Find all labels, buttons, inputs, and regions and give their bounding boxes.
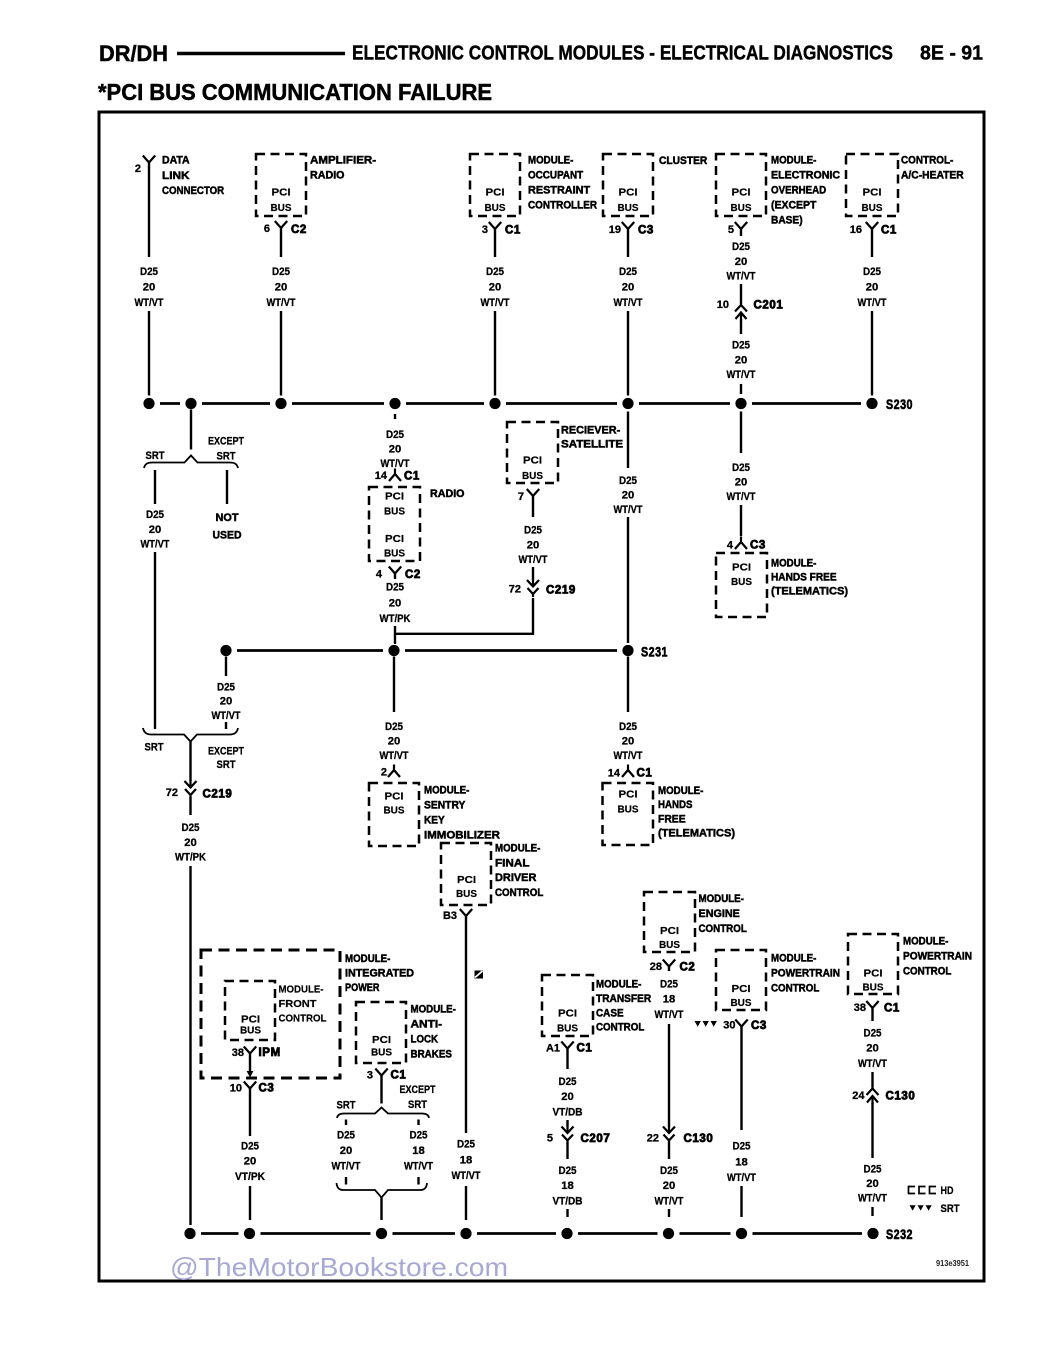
- svg-text:D25: D25: [486, 266, 504, 278]
- svg-text:D25: D25: [559, 1165, 577, 1177]
- svg-text:@TheMotorBookstore.com: @TheMotorBookstore.com: [170, 1252, 508, 1282]
- svg-text:SRT: SRT: [337, 1100, 356, 1112]
- svg-text:WT/VT: WT/VT: [727, 271, 756, 283]
- svg-text:HD: HD: [941, 1185, 954, 1197]
- svg-text:D25: D25: [386, 429, 404, 441]
- svg-text:CONTROL: CONTROL: [495, 887, 544, 899]
- svg-text:D25: D25: [619, 266, 637, 278]
- wire C207 to S232 (D25 18 VT/DB): [566, 1143, 568, 1160]
- brace merge ABS branches: [337, 1183, 428, 1198]
- svg-text:D25: D25: [619, 721, 637, 733]
- svg-text:WT/VT: WT/VT: [519, 554, 548, 566]
- wire Powertrain 2 to C130 (D25 20 WT/VT): [871, 1008, 873, 1021]
- svg-text:BUS: BUS: [384, 548, 405, 560]
- junction on S230 at x=149: [143, 398, 154, 409]
- wire S230 down to Radio C1 (D25 20 WT/VT): [394, 414, 396, 419]
- svg-text:WT/VT: WT/VT: [655, 1009, 684, 1021]
- svg-text:72: 72: [509, 584, 521, 596]
- svg-text:BUS: BUS: [522, 470, 543, 482]
- junction on S231 at x=226: [220, 645, 231, 656]
- svg-text:C1: C1: [391, 1070, 407, 1082]
- svg-text:BUS: BUS: [731, 202, 752, 214]
- svg-text:18: 18: [561, 1180, 574, 1192]
- svg-text:D25: D25: [660, 979, 678, 991]
- svg-text:EXCEPT: EXCEPT: [208, 746, 244, 758]
- svg-text:C1: C1: [884, 1003, 900, 1015]
- svg-text:18: 18: [460, 1154, 473, 1166]
- diagram border frame: [99, 112, 984, 1281]
- wire ABS SRT branch (D25 20 WT/VT): [345, 1120, 347, 1126]
- wire EXCEPT SRT branch to NOT USED: [226, 470, 228, 504]
- svg-text:RADIO: RADIO: [310, 170, 345, 182]
- svg-text:CONTROL: CONTROL: [279, 1013, 328, 1025]
- svg-text:20: 20: [622, 736, 635, 748]
- svg-text:PCI: PCI: [372, 1034, 391, 1046]
- svg-text:WT/VT: WT/VT: [858, 1193, 887, 1205]
- svg-text:RECIEVER-: RECIEVER-: [561, 425, 621, 437]
- svg-text:PCI: PCI: [732, 187, 751, 199]
- svg-text:D25: D25: [272, 266, 290, 278]
- svg-text:MODULE-: MODULE-: [424, 785, 470, 797]
- svg-text:PCI: PCI: [272, 187, 291, 199]
- svg-text:ELECTRONIC CONTROL MODULES - E: ELECTRONIC CONTROL MODULES - ELECTRICAL …: [352, 43, 893, 65]
- svg-text:20: 20: [389, 444, 402, 456]
- svg-text:7: 7: [518, 491, 524, 503]
- svg-text:TRANSFER: TRANSFER: [596, 993, 651, 1005]
- module Powertrain Control 1: [716, 950, 766, 1010]
- svg-text:INTEGRATED: INTEGRATED: [345, 967, 414, 979]
- svg-text:30: 30: [723, 1020, 735, 1032]
- junction on S232 at x=741.5: [736, 1228, 747, 1239]
- svg-text:BUS: BUS: [659, 939, 680, 951]
- svg-text:BUS: BUS: [485, 202, 506, 214]
- svg-text:C1: C1: [505, 225, 521, 237]
- svg-text:WT/VT: WT/VT: [332, 1161, 361, 1173]
- svg-text:LINK: LINK: [162, 170, 190, 182]
- svg-text:CONTROL-: CONTROL-: [901, 155, 954, 167]
- svg-text:PCI: PCI: [732, 983, 751, 995]
- wire DLC to S230 (D25 20 WT/VT): [148, 163, 150, 258]
- svg-text:WT/VT: WT/VT: [727, 369, 756, 381]
- junction on S232 at x=190: [184, 1228, 195, 1239]
- svg-text:POWER: POWER: [345, 982, 380, 994]
- svg-text:D25: D25: [524, 525, 542, 537]
- svg-text:SRT: SRT: [146, 450, 165, 462]
- svg-text:20: 20: [275, 281, 288, 293]
- wire SRT branch down (D25 20 WT/VT): [154, 470, 156, 504]
- module Reciever-Satellite: [507, 422, 558, 483]
- svg-text:PCI: PCI: [619, 789, 638, 801]
- module Final Driver Control: [441, 843, 491, 905]
- svg-text:FINAL: FINAL: [495, 857, 530, 869]
- svg-text:MODULE-: MODULE-: [658, 785, 704, 797]
- svg-text:FRONT: FRONT: [279, 998, 318, 1010]
- svg-text:20: 20: [866, 1178, 879, 1190]
- svg-text:CONTROLLER: CONTROLLER: [528, 200, 597, 212]
- svg-text:913e3951: 913e3951: [936, 1258, 969, 1268]
- variant mark square icon: [475, 971, 484, 979]
- module Powertrain Control 2: [848, 934, 898, 994]
- svg-text:(EXCEPT: (EXCEPT: [771, 200, 817, 212]
- svg-text:AMPLIFIER-: AMPLIFIER-: [310, 155, 376, 167]
- svg-text:8E - 91: 8E - 91: [920, 43, 983, 65]
- wire Occupant Restraint to S230 (D25 20 WT/VT): [494, 229, 496, 257]
- svg-text:38: 38: [232, 1047, 244, 1059]
- svg-text:DR/DH: DR/DH: [99, 41, 168, 66]
- svg-text:WT/VT: WT/VT: [727, 491, 756, 503]
- svg-text:BUS: BUS: [384, 805, 405, 817]
- svg-text:LOCK: LOCK: [411, 1034, 439, 1046]
- wire C130 to S232 (D25 20 WT/VT): [871, 1103, 873, 1159]
- svg-text:IPM: IPM: [259, 1047, 281, 1059]
- svg-text:C207: C207: [581, 1133, 611, 1145]
- svg-text:FREE: FREE: [658, 813, 686, 825]
- wire Amplifier to S230 (D25 20 WT/VT): [280, 228, 282, 257]
- svg-text:D25: D25: [457, 1139, 475, 1151]
- svg-text:D25: D25: [559, 1076, 577, 1088]
- svg-text:BRAKES: BRAKES: [411, 1049, 452, 1061]
- svg-text:18: 18: [735, 1156, 748, 1168]
- svg-text:14: 14: [608, 768, 621, 780]
- svg-text:MODULE-: MODULE-: [771, 558, 817, 570]
- svg-text:20: 20: [622, 281, 635, 293]
- svg-text:20: 20: [866, 1043, 879, 1055]
- svg-text:WT/PK: WT/PK: [175, 852, 206, 864]
- junction on S230 at x=191: [185, 398, 196, 409]
- svg-text:WT/VT: WT/VT: [267, 297, 296, 309]
- svg-text:WT/VT: WT/VT: [381, 458, 410, 470]
- wire Engine to C130 (D25 18 WT/VT): [668, 967, 670, 972]
- module Hands Free (Telematics) 2: [603, 783, 654, 845]
- svg-text:20: 20: [735, 256, 748, 268]
- svg-text:C3: C3: [638, 225, 654, 237]
- svg-text:WT/VT: WT/VT: [141, 539, 170, 551]
- legend HD symbols: [909, 1187, 916, 1194]
- junction on S230 at x=395: [389, 398, 400, 409]
- svg-text:BUS: BUS: [456, 888, 477, 900]
- svg-text:16: 16: [850, 224, 862, 236]
- svg-text:MODULE-: MODULE-: [771, 953, 817, 965]
- svg-text:20: 20: [866, 281, 879, 293]
- svg-text:CLUSTER: CLUSTER: [659, 155, 707, 167]
- wire ABS to split brace: [380, 1076, 382, 1104]
- svg-text:PCI: PCI: [732, 562, 751, 574]
- svg-text:DRIVER: DRIVER: [495, 872, 536, 884]
- svg-text:28: 28: [650, 961, 662, 973]
- wire Powertrain 1 to S232 (D25 18 WT/VT): [740, 1027, 742, 1131]
- junction on S232 at x=668.5: [663, 1228, 674, 1239]
- svg-text:*PCI BUS COMMUNICATION FAILURE: *PCI BUS COMMUNICATION FAILURE: [98, 79, 492, 105]
- svg-text:MODULE-: MODULE-: [771, 155, 817, 167]
- svg-text:WT/VT: WT/VT: [614, 297, 643, 309]
- svg-text:C1: C1: [881, 225, 897, 237]
- wire Radio C2 down (D25 20 WT/PK): [394, 574, 396, 580]
- svg-text:C3: C3: [751, 1020, 767, 1032]
- svg-text:POWERTRAIN: POWERTRAIN: [771, 968, 840, 980]
- svg-text:PCI: PCI: [385, 491, 404, 503]
- svg-text:B3: B3: [443, 910, 457, 922]
- svg-text:S232: S232: [886, 1227, 913, 1242]
- svg-text:BASE): BASE): [771, 215, 803, 227]
- wire from S230 down to SRT split: [190, 410, 192, 450]
- svg-text:20: 20: [340, 1145, 353, 1157]
- svg-text:MODULE-: MODULE-: [528, 155, 574, 167]
- svg-text:SRT: SRT: [217, 759, 236, 771]
- wire Satellite to C219 (D25 20 WT/VT): [532, 496, 534, 517]
- svg-text:20: 20: [561, 1091, 574, 1103]
- svg-text:20: 20: [663, 1180, 676, 1192]
- svg-text:18: 18: [412, 1145, 425, 1157]
- svg-text:C219: C219: [203, 789, 233, 801]
- svg-text:(TELEMATICS): (TELEMATICS): [771, 586, 848, 598]
- svg-text:WT/VT: WT/VT: [614, 504, 643, 516]
- wire ABS merge to S232: [380, 1198, 382, 1221]
- svg-text:C3: C3: [750, 540, 766, 552]
- svg-text:14: 14: [375, 470, 388, 482]
- svg-text:WT/VT: WT/VT: [212, 710, 241, 722]
- svg-text:DATA: DATA: [162, 155, 190, 167]
- brace split SRT / EXCEPT SRT: [144, 456, 238, 469]
- junction on S232 at x=873: [867, 1228, 878, 1239]
- svg-text:BUS: BUS: [371, 1047, 392, 1059]
- svg-text:BUS: BUS: [731, 997, 752, 1009]
- svg-text:POWERTRAIN: POWERTRAIN: [903, 951, 972, 963]
- svg-text:WT/VT: WT/VT: [858, 297, 887, 309]
- svg-text:PCI: PCI: [523, 455, 542, 467]
- svg-text:4: 4: [376, 569, 383, 581]
- svg-text:SENTRY: SENTRY: [424, 800, 466, 812]
- svg-text:BUS: BUS: [618, 804, 639, 816]
- svg-text:HANDS: HANDS: [658, 799, 693, 811]
- svg-text:PCI: PCI: [486, 187, 505, 199]
- svg-text:D25: D25: [140, 266, 158, 278]
- svg-text:3: 3: [367, 1070, 373, 1082]
- svg-text:S231: S231: [641, 645, 668, 660]
- svg-text:SRT: SRT: [217, 451, 236, 463]
- svg-text:PCI: PCI: [660, 925, 679, 937]
- svg-text:VT/DB: VT/DB: [553, 1195, 583, 1207]
- splice S230 bus wire: [160, 402, 180, 405]
- wire C130 to S232 (D25 20 WT/VT): [668, 1143, 670, 1160]
- svg-text:20: 20: [527, 539, 540, 551]
- svg-text:NOT: NOT: [216, 512, 239, 524]
- svg-text:RESTRAINT: RESTRAINT: [528, 185, 590, 197]
- svg-text:C1: C1: [404, 471, 420, 483]
- svg-text:20: 20: [149, 524, 162, 536]
- brace merge SRT / EXCEPT SRT: [143, 728, 238, 742]
- svg-text:CONTROL: CONTROL: [699, 923, 748, 935]
- svg-text:D25: D25: [619, 475, 637, 487]
- svg-text:CONTROL: CONTROL: [771, 983, 820, 995]
- svg-text:EXCEPT: EXCEPT: [208, 436, 244, 448]
- svg-text:5: 5: [547, 1133, 553, 1145]
- svg-text:KEY: KEY: [424, 815, 445, 827]
- svg-text:D25: D25: [660, 1165, 678, 1177]
- svg-text:WT/VT: WT/VT: [404, 1161, 433, 1173]
- junction on S231 at x=628: [622, 645, 633, 656]
- svg-text:BUS: BUS: [384, 506, 405, 518]
- svg-text:MODULE-: MODULE-: [495, 843, 541, 855]
- svg-text:SRT: SRT: [145, 742, 164, 754]
- svg-text:CONTROL: CONTROL: [596, 1022, 645, 1034]
- module Occupant Restraint Controller: [470, 154, 520, 216]
- module Amplifier-Radio: [256, 154, 306, 216]
- junction on S232 at x=249.5: [244, 1228, 255, 1239]
- svg-text:D25: D25: [864, 1164, 882, 1176]
- svg-text:MODULE-: MODULE-: [411, 1004, 457, 1016]
- svg-text:WT/VT: WT/VT: [727, 1172, 756, 1184]
- legend SRT triangles: [910, 1205, 916, 1210]
- wire C219 to S232 (D25 20 WT/PK): [189, 797, 191, 815]
- svg-text:S230: S230: [886, 397, 913, 412]
- svg-text:MODULE-: MODULE-: [596, 979, 642, 991]
- svg-text:C219: C219: [546, 585, 576, 597]
- svg-text:ELECTRONIC: ELECTRONIC: [771, 170, 840, 182]
- wire Cluster S230 to S231 (D25 20 WT/VT): [627, 412, 629, 469]
- svg-text:20: 20: [244, 1156, 257, 1168]
- svg-text:38: 38: [854, 1002, 866, 1014]
- wire A/C-Heater to S230 (D25 20 WT/VT): [871, 229, 873, 257]
- svg-text:WT/VT: WT/VT: [135, 297, 164, 309]
- svg-text:10: 10: [717, 299, 729, 311]
- svg-text:EXCEPT: EXCEPT: [400, 1084, 436, 1096]
- wire S231 down to Sentry Key (D25 20 WT/VT): [393, 657, 395, 713]
- svg-text:BUS: BUS: [862, 202, 883, 214]
- module Transfer Case Control: [542, 975, 593, 1036]
- svg-text:C1: C1: [637, 768, 653, 780]
- svg-text:PCI: PCI: [619, 187, 638, 199]
- junction on S232 at x=466: [460, 1228, 471, 1239]
- svg-text:MODULE-: MODULE-: [699, 893, 745, 905]
- svg-text:OVERHEAD: OVERHEAD: [771, 185, 826, 197]
- wire Cluster to S230 (D25 20 WT/VT): [627, 229, 629, 257]
- svg-text:A/C-HEATER: A/C-HEATER: [901, 170, 964, 182]
- svg-text:BUS: BUS: [618, 202, 639, 214]
- svg-text:C2: C2: [680, 962, 696, 974]
- wire S230 down to Hands Free (D25 20 WT/VT): [740, 412, 742, 454]
- svg-text:BUS: BUS: [271, 202, 292, 214]
- svg-text:WT/VT: WT/VT: [655, 1195, 684, 1207]
- svg-text:D25: D25: [217, 682, 235, 694]
- svg-text:D25: D25: [863, 266, 881, 278]
- svg-text:C3: C3: [259, 1083, 275, 1095]
- svg-text:20: 20: [220, 696, 233, 708]
- svg-text:ENGINE: ENGINE: [699, 908, 740, 920]
- svg-text:C2: C2: [405, 569, 421, 581]
- svg-text:2: 2: [381, 767, 387, 779]
- svg-text:20: 20: [389, 597, 402, 609]
- svg-text:2: 2: [135, 163, 141, 175]
- svg-text:WT/PK: WT/PK: [380, 613, 411, 625]
- splice S232 bus wire: [201, 1232, 239, 1235]
- svg-text:22: 22: [647, 1133, 659, 1145]
- wire IPM C3 to S232 (D25 20 VT/PK): [249, 1089, 251, 1137]
- header rule line: [177, 52, 345, 55]
- svg-text:D25: D25: [732, 241, 750, 253]
- svg-text:USED: USED: [213, 530, 242, 542]
- splice S231 bus wire: [237, 649, 383, 652]
- svg-text:VT/DB: VT/DB: [553, 1106, 583, 1118]
- svg-text:D25: D25: [146, 509, 164, 521]
- svg-text:WT/VT: WT/VT: [614, 750, 643, 762]
- wire Transfer Case to C207 (D25 20 VT/DB): [566, 1049, 568, 1070]
- svg-text:19: 19: [609, 224, 621, 236]
- svg-text:BUS: BUS: [863, 982, 884, 994]
- junction on S231 at x=394: [388, 645, 399, 656]
- svg-text:WT/VT: WT/VT: [858, 1058, 887, 1070]
- wire C201 to S230 (D25 20 WT/VT): [740, 319, 742, 334]
- svg-text:20: 20: [143, 281, 156, 293]
- svg-text:20: 20: [489, 281, 502, 293]
- svg-text:HANDS FREE: HANDS FREE: [771, 572, 837, 584]
- svg-text:WT/VT: WT/VT: [481, 297, 510, 309]
- svg-text:D25: D25: [864, 1028, 882, 1040]
- svg-text:CONTROL: CONTROL: [903, 966, 952, 978]
- svg-text:MODULE-: MODULE-: [903, 936, 949, 948]
- junction on S230 at x=872: [866, 398, 877, 409]
- svg-text:PCI: PCI: [385, 533, 404, 545]
- svg-text:A1: A1: [546, 1043, 560, 1055]
- svg-text:D25: D25: [733, 1141, 751, 1153]
- module Hands Free (Telematics): [716, 553, 767, 617]
- svg-text:WT/VT: WT/VT: [452, 1170, 481, 1182]
- module Front Control inner box: [225, 981, 275, 1040]
- variant marks SRT triangles (Powertrain 1): [695, 1021, 701, 1027]
- svg-text:(TELEMATICS): (TELEMATICS): [658, 828, 735, 840]
- svg-text:SATELLITE: SATELLITE: [561, 439, 623, 451]
- svg-text:3: 3: [482, 224, 488, 236]
- junction on S232 at x=381.5: [376, 1228, 387, 1239]
- svg-text:18: 18: [663, 994, 676, 1006]
- svg-text:5: 5: [728, 224, 734, 236]
- svg-text:PCI: PCI: [457, 874, 476, 886]
- svg-text:C130: C130: [886, 1091, 916, 1103]
- svg-text:20: 20: [388, 736, 401, 748]
- svg-text:D25: D25: [732, 462, 750, 474]
- svg-text:20: 20: [735, 477, 748, 489]
- svg-text:SRT: SRT: [941, 1203, 960, 1215]
- svg-text:MODULE-: MODULE-: [279, 984, 324, 996]
- module Integrated Power outer box: [201, 950, 340, 1078]
- svg-text:WT/VT: WT/VT: [380, 750, 409, 762]
- module Anti-Lock Brakes: [356, 1002, 406, 1063]
- svg-text:24: 24: [852, 1090, 865, 1102]
- wire S231 down to merge (D25 20 WT/VT): [225, 657, 227, 677]
- svg-text:ANTI-: ANTI-: [411, 1019, 443, 1031]
- svg-text:C130: C130: [684, 1133, 714, 1145]
- module Control A/C-Heater: [846, 154, 898, 216]
- wire S231 down to Hands Free 2 (D25 20 WT/VT): [627, 657, 629, 713]
- svg-text:72: 72: [166, 787, 178, 799]
- svg-text:6: 6: [264, 223, 270, 235]
- module Engine Control: [644, 892, 695, 952]
- junction on S230 at x=741: [735, 398, 746, 409]
- module Cluster: [603, 154, 653, 216]
- wire ABS EXCEPT SRT branch (D25 18 WT/VT): [417, 1120, 419, 1126]
- svg-text:D25: D25: [385, 721, 403, 733]
- svg-text:IMMOBILIZER: IMMOBILIZER: [424, 830, 500, 842]
- svg-text:MODULE-: MODULE-: [345, 953, 391, 965]
- svg-text:BUS: BUS: [557, 1023, 578, 1035]
- module Sentry Key Immobilizer: [369, 783, 419, 846]
- svg-text:PCI: PCI: [864, 968, 883, 980]
- svg-text:20: 20: [622, 490, 635, 502]
- svg-text:RADIO: RADIO: [430, 488, 465, 500]
- svg-text:OCCUPANT: OCCUPANT: [528, 170, 583, 182]
- wire B3 to S232 (D25 18 WT/VT): [465, 916, 467, 1133]
- wire Overhead to C201 (D25 20 WT/VT): [740, 229, 742, 236]
- svg-text:C2: C2: [291, 224, 307, 236]
